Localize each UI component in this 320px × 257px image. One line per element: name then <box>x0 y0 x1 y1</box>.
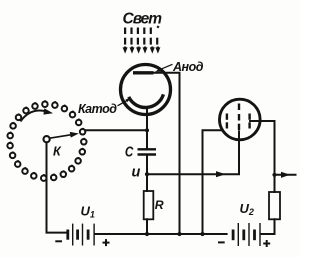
svg-text:С: С <box>125 143 134 160</box>
svg-text:Свет: Свет <box>123 11 163 28</box>
svg-text:R: R <box>155 198 164 212</box>
svg-text:и: и <box>132 165 141 181</box>
svg-text:К: К <box>53 144 62 158</box>
svg-text:Катод: Катод <box>78 102 117 116</box>
svg-text:Анод: Анод <box>172 60 204 74</box>
